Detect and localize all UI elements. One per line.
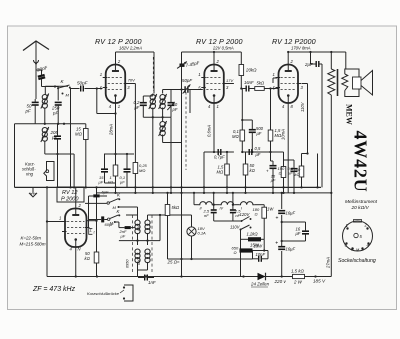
wire V2 anode up	[213, 52, 215, 65]
svg-text:22V 0,5mA: 22V 0,5mA	[212, 45, 234, 50]
switch K	[57, 87, 59, 89]
wire V2 cathode	[213, 103, 215, 149]
svg-text:27mA: 27mA	[326, 257, 331, 269]
capacitor 20pF IF1	[168, 102, 175, 104]
svg-text:kΩ: kΩ	[108, 180, 113, 185]
wire lamp leads	[191, 215, 193, 227]
svg-text:50pF: 50pF	[182, 78, 192, 83]
svg-text:0,1A: 0,1A	[198, 231, 207, 236]
wire cathode RC bottom	[105, 182, 116, 184]
resistor cathode 1kOhm	[113, 165, 118, 176]
resistor 5kOhm lower	[165, 205, 170, 216]
dial lamp	[187, 227, 196, 236]
wire left drop	[14, 124, 16, 188]
IF1 coil primary	[150, 95, 155, 100]
heater winding IV	[220, 202, 235, 205]
wire anode to OT	[330, 52, 332, 69]
wire screen line	[302, 83, 308, 85]
svg-text:MΩ: MΩ	[139, 168, 145, 173]
capacitor 6,8pF	[93, 194, 99, 197]
svg-text:182V 2,2mA: 182V 2,2mA	[119, 45, 142, 50]
svg-text:10W: 10W	[254, 244, 264, 249]
contact M	[62, 93, 64, 95]
socket pins	[346, 227, 348, 229]
svg-text:1,5 kΩ: 1,5 kΩ	[291, 269, 305, 274]
wire tuned bottom	[35, 123, 64, 125]
resistor 50kOhm V4	[94, 252, 99, 263]
svg-text:Ω: Ω	[279, 171, 282, 176]
output transformer secondary	[342, 74, 348, 91]
wire right power drop	[315, 276, 317, 278]
wire 250pF bottom	[57, 105, 59, 124]
bottom rail	[47, 276, 331, 278]
svg-text:μF: μF	[256, 131, 262, 136]
coil osc M b	[145, 249, 150, 254]
oscillator coil	[160, 122, 165, 127]
svg-text:50pF: 50pF	[77, 81, 89, 86]
wire osc right drop	[159, 215, 161, 241]
resistor 1,2kOhm 15W	[248, 237, 261, 241]
svg-text:110V: 110V	[300, 101, 305, 112]
svg-text:0,6mA: 0,6mA	[207, 125, 212, 137]
svg-text:170V 8mA: 170V 8mA	[291, 45, 311, 50]
svg-text:μF: μF	[98, 180, 104, 185]
wire elec top	[281, 193, 283, 209]
wire lamp feed drop	[181, 193, 183, 259]
svg-text:Sockelschaltung: Sockelschaltung	[338, 258, 376, 264]
svg-text:20 kΩ/V: 20 kΩ/V	[351, 205, 370, 211]
switch 120V	[241, 220, 243, 222]
wire det node	[234, 88, 241, 90]
svg-text:pF: pF	[52, 111, 58, 116]
resistor 20kOhm	[239, 65, 244, 76]
label RV 12 P 2000 (tube4) box	[57, 187, 84, 202]
gang dashed line b	[185, 92, 187, 170]
resistor 1,5MOhm lower	[225, 164, 230, 175]
wire screen node	[302, 153, 308, 155]
capacitor 0,5uF	[248, 149, 250, 155]
wire 205pF	[57, 126, 59, 136]
switch 110V	[240, 229, 242, 231]
resistor 5kOhm	[255, 87, 265, 91]
capacitor 500pF	[249, 129, 256, 131]
rectifier diode 24 Zellen	[258, 273, 266, 281]
wire V3 pin stub	[273, 77, 277, 79]
wire 5k down	[167, 216, 169, 260]
svg-text:pF: pF	[172, 107, 178, 112]
wire speaker feed	[345, 52, 347, 69]
wire V3 grid	[277, 88, 278, 90]
wire k1 lead	[85, 202, 107, 204]
svg-text:pF: pF	[51, 135, 57, 140]
ground rail upper	[15, 186, 322, 188]
wire OT primary down	[330, 95, 332, 193]
svg-text:P 2000: P 2000	[61, 197, 79, 203]
coil osc M a	[135, 249, 140, 254]
resistor 0,1MOhm	[240, 130, 245, 141]
capacitor 10nF	[258, 256, 260, 262]
wire to tube1 grid	[85, 88, 103, 90]
coil L1 antenna	[42, 95, 47, 100]
svg-text:16μF: 16μF	[286, 211, 296, 216]
resistor 1,5MOhm right	[268, 130, 273, 141]
wire 15M top	[85, 124, 87, 129]
tube V2	[204, 65, 224, 104]
antenna	[23, 41, 49, 51]
svg-text:1: 1	[273, 72, 275, 77]
wire var cap drop	[189, 90, 191, 114]
svg-text:120V: 120V	[240, 212, 251, 217]
capacitor 2uF	[315, 61, 317, 67]
heater winding II	[199, 202, 214, 205]
svg-text:μF: μF	[120, 234, 126, 239]
svg-text:K=22-50m: K=22-50m	[21, 236, 42, 241]
svg-text:70V: 70V	[128, 78, 135, 83]
wire B+ rail V1	[116, 51, 155, 53]
wire V4 cathode	[75, 247, 77, 277]
svg-text:kΩ: kΩ	[85, 256, 91, 261]
svg-text:17V: 17V	[226, 78, 233, 83]
antenna plug connector	[34, 60, 39, 63]
wire switch col	[88, 196, 90, 228]
wire IF1 bottoms	[142, 112, 144, 117]
wire heater chain left	[193, 193, 195, 205]
svg-text:25 Ω≈: 25 Ω≈	[167, 260, 180, 265]
resistor 1,5kOhm 2W	[293, 274, 305, 278]
svg-text:Kurzschlußbrücke: Kurzschlußbrücke	[87, 291, 120, 296]
wire elec bottom	[281, 251, 283, 277]
speaker circuit loop	[345, 69, 359, 77]
svg-text:MΩ: MΩ	[75, 132, 83, 137]
capacitor 50pF series	[80, 86, 82, 92]
wire V1 anode up	[115, 52, 117, 65]
IF1 coil secondary	[160, 95, 165, 100]
wire elec mid link	[282, 221, 306, 223]
coil L2	[42, 128, 47, 133]
output transformer primary	[328, 69, 335, 95]
shorting ring symbol	[44, 162, 54, 181]
svg-text:Meßinstrument: Meßinstrument	[345, 199, 378, 205]
tube V4	[65, 209, 87, 248]
gang dashed lower left	[132, 215, 134, 274]
svg-text:μF: μF	[255, 152, 261, 157]
svg-text:16μF: 16μF	[286, 247, 296, 252]
wire det row	[242, 151, 257, 153]
svg-text:kΩ: kΩ	[250, 168, 256, 173]
capacitor 16uF bottom	[278, 246, 285, 248]
svg-text:4W42U: 4W42U	[351, 131, 371, 193]
wire avc left drop	[203, 152, 205, 193]
wire antenna down	[35, 66, 37, 99]
wire after cap	[253, 151, 284, 153]
wire osc line drop	[181, 52, 183, 90]
svg-text:185 V: 185 V	[313, 279, 326, 284]
svg-text:Ω: Ω	[255, 212, 258, 217]
svg-text:0950: 0950	[126, 259, 130, 268]
wire osc coil bottom	[162, 135, 164, 143]
svg-text:1: 1	[59, 216, 61, 221]
svg-text:IV: IV	[220, 207, 224, 211]
svg-text:20kΩ: 20kΩ	[245, 68, 257, 73]
contact M1	[118, 206, 120, 208]
capacitor 2,5nF a	[211, 209, 217, 211]
svg-text:+: +	[266, 169, 269, 174]
svg-text:1: 1	[217, 104, 219, 109]
wire V2 pin3	[226, 83, 234, 85]
svg-text:0,7μF: 0,7μF	[214, 155, 225, 160]
capacitor 250pF	[55, 101, 62, 103]
svg-text:0,5: 0,5	[255, 146, 261, 151]
resistor 0,25MOhm	[133, 163, 138, 174]
wire L2 bottom	[44, 141, 46, 155]
resistor 150Ohm	[281, 167, 286, 178]
svg-text:+: +	[275, 241, 278, 247]
svg-text:+: +	[276, 216, 279, 222]
bracket t	[89, 228, 93, 234]
switch K1	[107, 202, 109, 204]
svg-text:kΩ: kΩ	[295, 172, 300, 177]
capacitor 16uF mid right	[302, 230, 309, 232]
wire lamp bottom drop	[181, 259, 183, 277]
wire avc mid	[213, 149, 215, 153]
svg-text:1: 1	[118, 104, 120, 109]
svg-text:μF: μF	[270, 178, 276, 183]
coil osc K a	[135, 220, 140, 225]
svg-text:5kΩ: 5kΩ	[172, 205, 180, 210]
svg-text:5kΩ: 5kΩ	[257, 81, 265, 86]
wire trimmer	[182, 52, 184, 64]
wire mixer grid	[171, 89, 184, 91]
heater winding I	[239, 202, 254, 205]
wire det bottom	[269, 87, 271, 89]
svg-text:μF: μF	[134, 105, 140, 110]
switch K2	[108, 218, 110, 220]
svg-text:220 v: 220 v	[274, 279, 287, 284]
svg-text:1nF: 1nF	[148, 280, 156, 285]
wire 15M bottom	[85, 140, 87, 188]
svg-text:1: 1	[346, 223, 348, 228]
svg-text:1,2kΩ: 1,2kΩ	[247, 232, 259, 237]
svg-text:16nF: 16nF	[244, 80, 254, 85]
wire V4 anode	[75, 187, 77, 208]
wire IF1 top links	[143, 95, 153, 97]
svg-text:2μF: 2μF	[304, 62, 313, 67]
wire V1 cathode	[115, 103, 117, 193]
svg-text:nF: nF	[204, 213, 209, 218]
ground rail lower	[96, 192, 331, 194]
svg-text:1: 1	[198, 72, 200, 77]
wire V1 pin1 lead	[97, 77, 103, 79]
svg-text:10mA: 10mA	[281, 129, 286, 140]
capacitor 2nF	[125, 226, 131, 229]
wire 650 to node	[253, 250, 265, 252]
wire V3 anode up	[287, 52, 289, 65]
capacitor 0,2uF IF1	[140, 102, 147, 104]
capacitor 205pF	[54, 135, 61, 137]
capacitor 0,1uF out	[291, 168, 298, 170]
resistor 650Ohm 10W	[240, 248, 253, 252]
svg-text:110V: 110V	[230, 225, 241, 230]
tube V3	[279, 65, 299, 104]
wire switch node down	[70, 89, 72, 188]
wire mid join	[63, 123, 65, 125]
svg-text:ring: ring	[26, 172, 34, 177]
svg-text:1W: 1W	[267, 207, 274, 212]
wire screen bottom	[317, 154, 319, 188]
wire coil links	[137, 233, 139, 245]
wire cap to switch	[42, 86, 56, 88]
wire cathode tap	[104, 153, 134, 155]
capacitor grid 0,25	[124, 168, 131, 170]
socket circle	[343, 221, 373, 251]
capacitor 16uF top	[278, 210, 285, 212]
capacitor cathode bypass	[101, 168, 108, 170]
wire L1 bottom	[44, 108, 46, 124]
wire top node	[35, 85, 37, 87]
capacitor 1nF	[144, 275, 146, 281]
wire B+ rail V3	[288, 51, 346, 53]
wire lower vertical 160	[159, 191, 161, 216]
tube V1	[106, 65, 126, 104]
output transformer core	[337, 69, 339, 96]
trimmer 7-45pF	[180, 64, 185, 67]
contact M2	[114, 221, 116, 223]
svg-text:24 Zellen: 24 Zellen	[250, 282, 270, 287]
wire B+ rail V2	[182, 51, 242, 53]
resistor 50kOhm	[243, 164, 248, 175]
wire filament return	[168, 258, 253, 260]
ground symbol	[32, 187, 34, 193]
gang dashed lower right	[151, 215, 153, 274]
wire IF1 primary drop	[153, 52, 155, 94]
wire selector net	[241, 238, 249, 240]
svg-text:28mA: 28mA	[109, 124, 114, 136]
svg-text:1: 1	[100, 72, 102, 77]
svg-text:2 W: 2 W	[293, 280, 303, 285]
capacitor 50pF variable	[184, 86, 186, 93]
svg-text:M=215-580m: M=215-580m	[20, 242, 46, 247]
svg-text:MΩ: MΩ	[217, 170, 224, 175]
wire V1 grid stub	[96, 89, 98, 114]
wire V4 left	[47, 221, 62, 223]
svg-text:MΩ: MΩ	[232, 134, 239, 139]
speaker driver	[353, 77, 362, 89]
capacitor 50uF electrolytic	[270, 165, 277, 167]
capacitor 0,7uF	[217, 149, 219, 155]
resistor 15MOhm	[84, 129, 89, 140]
coil osc K b	[145, 220, 150, 225]
wire tuned top	[45, 85, 68, 87]
svg-text:pF: pF	[25, 109, 31, 114]
svg-text:μF: μF	[119, 180, 125, 185]
shorting link symbol	[124, 285, 133, 301]
wire 2uF drop	[317, 52, 319, 63]
capacitor 60pF	[101, 216, 104, 222]
wire heater chain	[194, 204, 199, 206]
wire V3 cathode	[287, 103, 289, 193]
wire elec mid	[281, 215, 283, 248]
wire heater tap b	[232, 193, 234, 205]
svg-text:10nF: 10nF	[256, 252, 266, 257]
wire heater caps join	[214, 220, 241, 222]
wire V1 pin3 right	[127, 83, 135, 85]
svg-text:N: N	[351, 248, 354, 252]
svg-text:μF: μF	[295, 231, 301, 236]
wire V4 grid right	[87, 220, 97, 222]
gang dashed line a	[152, 57, 154, 91]
wire lamp branch	[181, 190, 183, 192]
svg-text:6pF: 6pF	[102, 190, 109, 195]
capacitor 50pF shunt	[32, 101, 39, 103]
wire bottom to down	[63, 123, 65, 125]
resistor 180Ohm	[262, 207, 267, 218]
wire 50pF leads	[34, 99, 36, 102]
svg-text:Ω: Ω	[234, 250, 237, 255]
svg-text:ZF = 473 kHz: ZF = 473 kHz	[32, 286, 76, 293]
svg-text:MEW: MEW	[345, 104, 354, 125]
capacitor 2,5nF b	[230, 209, 236, 211]
capacitor 20pF	[38, 75, 45, 79]
wire V1 left link	[97, 113, 116, 115]
capacitor 16nF	[245, 86, 247, 92]
wire osc mid row	[119, 240, 160, 242]
resistor 150kOhm	[299, 166, 304, 177]
wire switch to cap 50pF	[71, 88, 80, 90]
wire heater tap a	[213, 193, 215, 205]
